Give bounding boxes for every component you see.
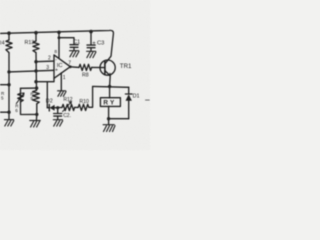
svg-text:+: + xyxy=(92,41,96,47)
svg-text:R12: R12 xyxy=(63,97,72,103)
svg-text:R13: R13 xyxy=(25,40,35,46)
svg-text:D1: D1 xyxy=(133,94,140,100)
svg-text:C1: C1 xyxy=(73,40,80,46)
svg-text:C3: C3 xyxy=(97,41,104,47)
svg-text:1: 1 xyxy=(63,75,66,81)
svg-text:3: 3 xyxy=(46,65,49,71)
svg-text:2: 2 xyxy=(48,55,51,61)
svg-text:TR1: TR1 xyxy=(120,63,132,70)
svg-text:IC: IC xyxy=(57,63,63,69)
svg-text:R8: R8 xyxy=(82,72,89,78)
svg-text:D2: D2 xyxy=(46,99,53,105)
svg-text:R4: R4 xyxy=(0,40,5,46)
svg-text:8: 8 xyxy=(54,49,57,55)
svg-text:7: 7 xyxy=(68,61,71,67)
svg-text:6: 6 xyxy=(15,108,18,113)
svg-text:9: 9 xyxy=(30,96,33,101)
svg-text:R10: R10 xyxy=(79,99,89,105)
svg-text:C2.: C2. xyxy=(63,113,71,119)
svg-text:RY: RY xyxy=(103,100,116,107)
svg-text:5: 5 xyxy=(1,96,4,101)
